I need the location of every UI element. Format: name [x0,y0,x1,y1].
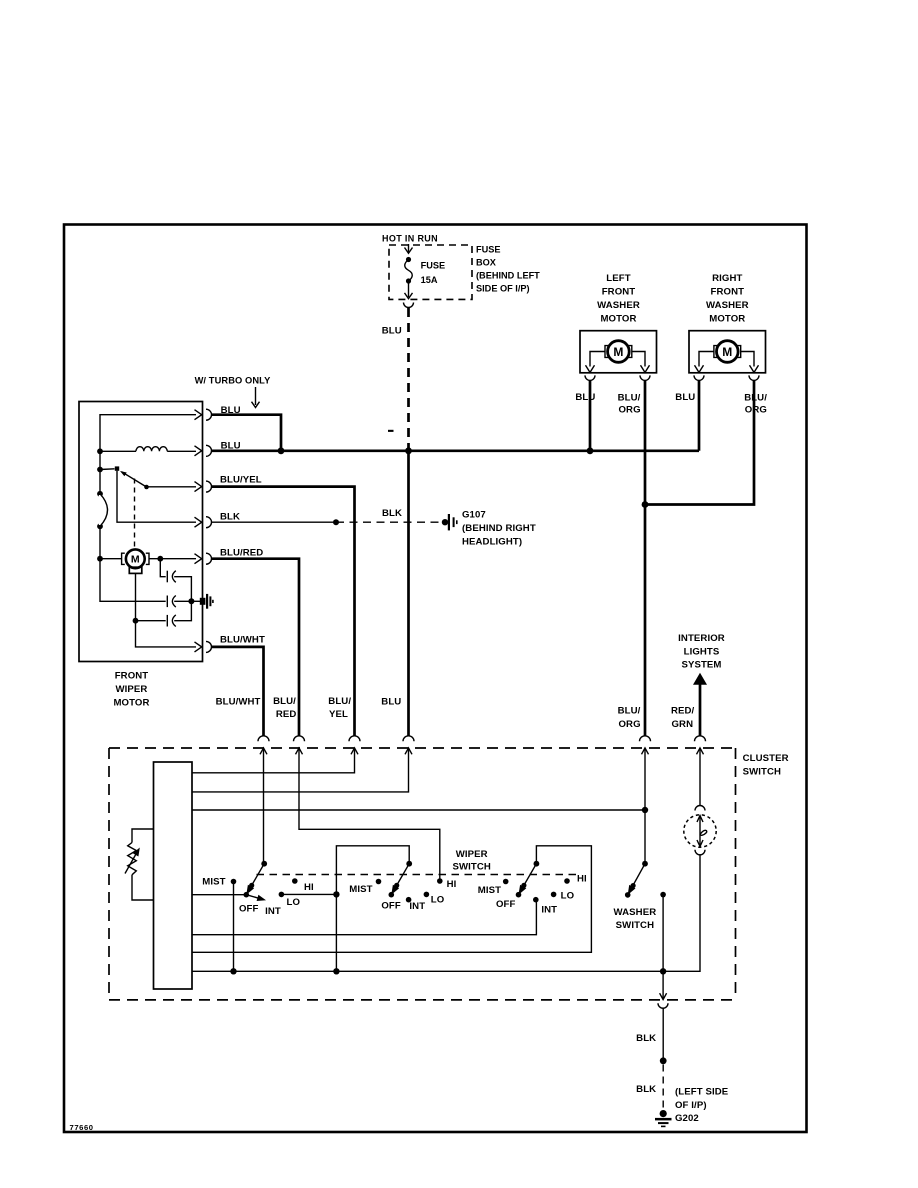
svg-text:LEFT: LEFT [606,273,630,284]
svg-text:WASHER: WASHER [706,300,749,311]
svg-text:OF I/P): OF I/P) [675,1100,707,1111]
svg-text:G107: G107 [462,509,486,520]
svg-text:RED: RED [276,709,297,720]
svg-text:BLU/RED: BLU/RED [220,547,263,558]
svg-text:(BEHIND RIGHT: (BEHIND RIGHT [462,523,536,534]
svg-text:HI: HI [304,882,314,893]
svg-text:INT: INT [265,906,281,917]
svg-text:BLU: BLU [675,392,695,403]
svg-text:15A: 15A [421,275,438,285]
svg-text:BLU: BLU [382,325,402,336]
svg-text:MOTOR: MOTOR [600,314,636,325]
svg-text:(LEFT SIDE: (LEFT SIDE [675,1087,729,1098]
svg-text:OFF: OFF [381,900,401,911]
svg-text:MIST: MIST [478,885,501,896]
svg-text:BLU/YEL: BLU/YEL [220,475,262,486]
svg-text:INTERIOR: INTERIOR [678,633,725,644]
svg-text:MIST: MIST [349,884,372,895]
svg-text:GRN: GRN [672,719,694,730]
svg-text:FRONT: FRONT [602,287,636,298]
svg-text:MIST: MIST [202,877,225,888]
svg-text:M: M [131,554,140,566]
svg-text:SWITCH: SWITCH [743,767,781,778]
svg-text:HI: HI [577,874,587,885]
svg-text:W/ TURBO ONLY: W/ TURBO ONLY [195,376,272,386]
svg-text:HOT IN RUN: HOT IN RUN [382,234,438,244]
svg-text:BLK: BLK [220,512,240,523]
svg-text:BLU/: BLU/ [273,696,296,707]
svg-text:WASHER: WASHER [614,907,657,918]
svg-text:BLK: BLK [382,508,402,519]
svg-text:BLU/: BLU/ [618,393,641,404]
svg-text:INT: INT [409,901,425,912]
svg-text:BLU/WHT: BLU/WHT [216,697,261,708]
svg-text:FUSE: FUSE [421,261,446,271]
svg-text:FRONT: FRONT [711,287,745,298]
svg-text:BLK: BLK [636,1033,656,1044]
svg-text:BLU/: BLU/ [618,705,641,716]
svg-text:LO: LO [561,891,575,902]
svg-text:ORG: ORG [619,719,641,730]
svg-text:SWITCH: SWITCH [452,861,490,872]
svg-text:FRONT: FRONT [115,671,149,682]
svg-text:LIGHTS: LIGHTS [684,646,720,657]
svg-text:ORG: ORG [619,405,641,416]
svg-text:BLU/: BLU/ [744,393,767,404]
svg-text:YEL: YEL [329,709,348,720]
svg-text:SYSTEM: SYSTEM [681,659,721,670]
svg-text:BOX: BOX [476,258,497,268]
svg-text:RED/: RED/ [671,705,695,716]
svg-text:CLUSTER: CLUSTER [743,753,789,764]
svg-text:LO: LO [431,895,445,906]
svg-text:BLU/: BLU/ [328,696,351,707]
svg-text:BLU: BLU [575,392,595,403]
svg-text:MOTOR: MOTOR [113,697,149,708]
svg-text:OFF: OFF [239,904,259,915]
svg-text:BLU: BLU [381,697,401,708]
svg-text:FUSE: FUSE [476,244,501,254]
svg-text:ORG: ORG [745,405,767,416]
svg-text:(BEHIND LEFT: (BEHIND LEFT [476,271,540,281]
svg-text:M: M [722,345,732,359]
svg-text:77660: 77660 [70,1123,94,1132]
svg-text:SIDE OF I/P): SIDE OF I/P) [476,284,530,294]
svg-text:LO: LO [287,897,301,908]
svg-text:HEADLIGHT): HEADLIGHT) [462,536,522,547]
svg-text:MOTOR: MOTOR [709,314,745,325]
svg-text:WASHER: WASHER [597,300,640,311]
svg-text:OFF: OFF [496,899,516,910]
svg-text:INT: INT [541,905,557,916]
svg-text:HI: HI [447,879,457,890]
svg-text:WIPER: WIPER [116,684,148,695]
svg-text:WIPER: WIPER [456,849,488,860]
svg-text:G202: G202 [675,1113,699,1124]
svg-text:SWITCH: SWITCH [616,920,654,931]
svg-text:BLU/WHT: BLU/WHT [220,634,265,645]
svg-text:RIGHT: RIGHT [712,273,742,284]
svg-text:BLU: BLU [221,441,241,452]
svg-text:M: M [613,345,623,359]
svg-text:BLK: BLK [636,1084,656,1095]
